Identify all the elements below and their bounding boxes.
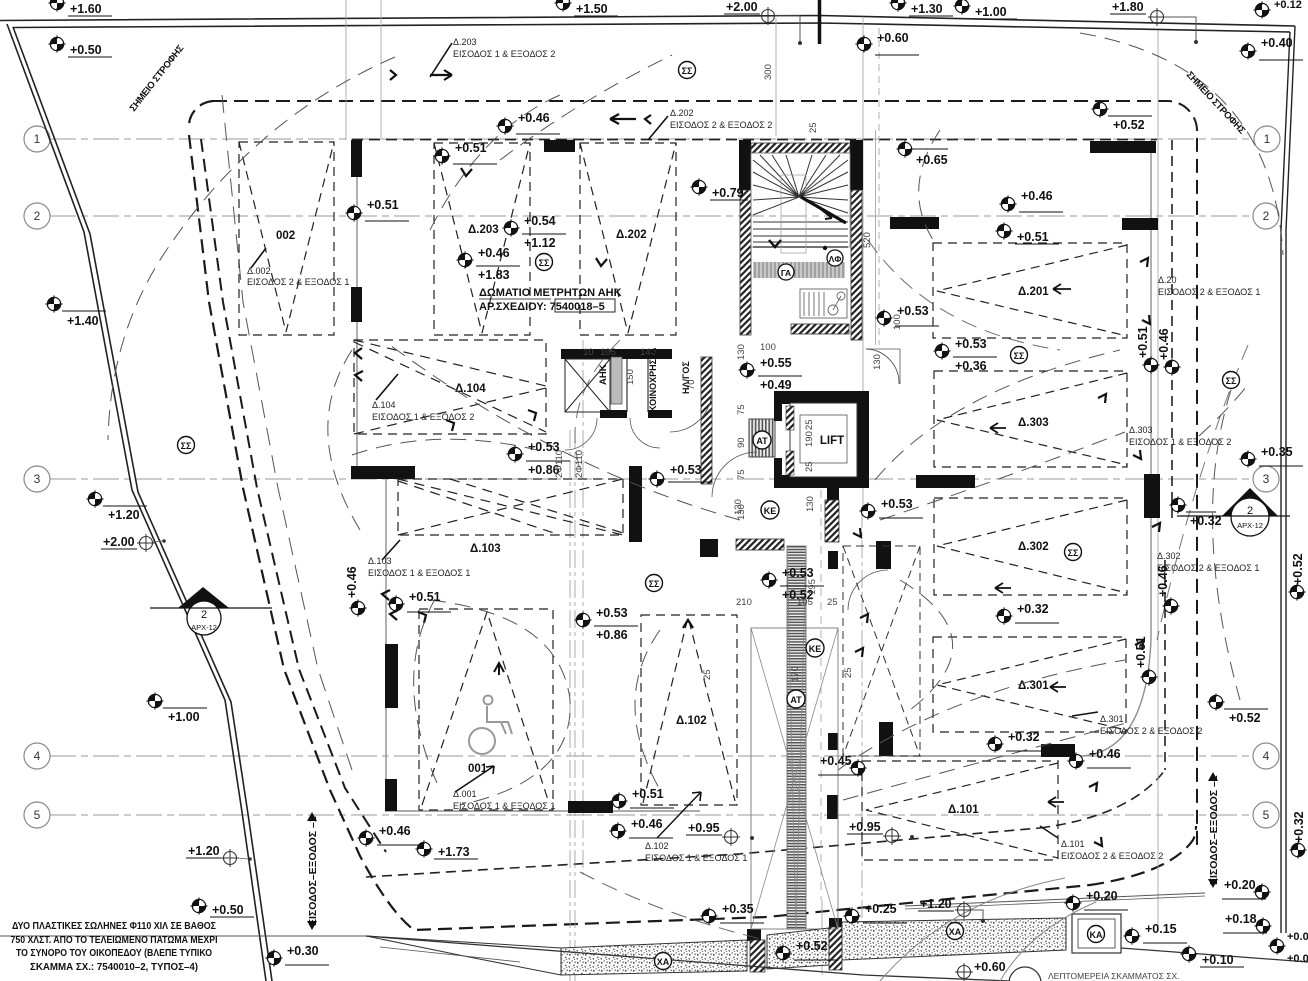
svg-text:+0.45: +0.45 (820, 754, 852, 768)
driveway edge dashed diagonal 1 (189, 135, 1090, 930)
svg-text:ΕΙΣΟΔΟΣ 2 & ΕΞΟΔΟΣ 1: ΕΙΣΟΔΟΣ 2 & ΕΞΟΔΟΣ 1 (247, 277, 349, 287)
symbol ΣΣ (1223, 372, 1240, 389)
symbol ΛΦ (827, 250, 843, 266)
wall row3 bar (916, 475, 975, 488)
bottom partial detail circle (1009, 967, 1041, 981)
svg-text:+0.51: +0.51 (455, 141, 487, 155)
svg-text:+1.60: +1.60 (70, 2, 102, 16)
svg-text:750 ΧΛΣΤ. ΑΠΟ ΤΟ ΤΕΛΕΙΩΜΕΝΟ ΠΑ: 750 ΧΛΣΤ. ΑΠΟ ΤΟ ΤΕΛΕΙΩΜΕΝΟ ΠΑΤΩΜΑ ΜΕΧΡΙ (11, 935, 218, 946)
svg-text:+0.53: +0.53 (955, 337, 987, 351)
svg-text:520: 520 (862, 232, 873, 248)
survey marker +0.46 (1156, 565, 1180, 614)
survey marker +0.12 (1253, 0, 1301, 19)
survey marker +1.73 (415, 840, 478, 859)
svg-text:+1.20: +1.20 (188, 844, 220, 858)
svg-text:+0.46: +0.46 (631, 817, 663, 831)
svg-text:+0.46: +0.46 (1157, 328, 1171, 360)
svg-text:300: 300 (763, 64, 774, 80)
door arcs core (565, 349, 1015, 610)
symbol ΚΑ (1088, 926, 1105, 943)
survey marker +0.51 (610, 787, 674, 810)
svg-text:3: 3 (34, 472, 41, 486)
wall bottom ramp right (829, 918, 842, 928)
svg-text:+0.32: +0.32 (1292, 811, 1306, 843)
svg-text:+0.46: +0.46 (518, 111, 550, 125)
svg-text:+0.25: +0.25 (865, 902, 897, 916)
survey marker +0.10 (1180, 945, 1244, 967)
svg-text:150: 150 (625, 369, 636, 385)
survey marker +0.51 (387, 590, 451, 613)
parking stall Δ.103 (398, 479, 623, 535)
survey marker +0.45 (818, 754, 867, 777)
parking stall Δ.301 (933, 637, 1126, 732)
svg-text:+1.12: +1.12 (524, 236, 556, 250)
svg-text:+0.15: +0.15 (1145, 922, 1177, 936)
survey marker +1.80 (1110, 0, 1198, 44)
parking stall B (top middle) (434, 143, 530, 335)
stair lobby grey band (753, 262, 845, 278)
parking stall Δ.201 (933, 243, 1127, 338)
survey marker +0.65 (896, 140, 948, 167)
svg-text:ΑΗΚ: ΑΗΚ (598, 364, 609, 385)
wall stair right (850, 140, 863, 190)
symbol ΑΤ (787, 690, 805, 708)
svg-text:Δ.102: Δ.102 (645, 841, 669, 851)
svg-text:+0.49: +0.49 (760, 378, 792, 392)
symbol ΣΣ (536, 254, 553, 271)
wall B13 (828, 551, 838, 569)
survey marker +0.51 (995, 222, 1059, 244)
svg-text:ΓΑ: ΓΑ (781, 268, 791, 278)
svg-text:+0.46: +0.46 (1156, 565, 1170, 597)
svg-text:130: 130 (872, 354, 883, 370)
svg-text:Δ.103: Δ.103 (470, 543, 501, 555)
survey marker +0.53 (760, 566, 824, 602)
svg-text:+0.51: +0.51 (1136, 326, 1150, 358)
svg-text:+0.79: +0.79 (712, 186, 744, 200)
svg-text:2Φ110: 2Φ110 (554, 450, 565, 478)
svg-text:+0.32: +0.32 (1017, 602, 1049, 616)
survey marker +0.32 (986, 730, 1050, 753)
stair treads winder fan (751, 153, 850, 253)
svg-text:2: 2 (1247, 505, 1253, 517)
stair bottom wall hatched (791, 324, 849, 334)
AHK store room (565, 359, 610, 412)
svg-text:+0.46: +0.46 (1021, 189, 1053, 203)
svg-text:Δ.20: Δ.20 (1158, 275, 1177, 285)
svg-text:+0.51: +0.51 (1017, 230, 1049, 244)
svg-text:25: 25 (827, 597, 838, 608)
survey marker +0.52 (1207, 693, 1268, 725)
svg-text:+0.54: +0.54 (524, 214, 556, 228)
svg-text:ΔΩΜΑΤΙΟ ΜΕΤΡΗΤΩΝ ΑΗΚ: ΔΩΜΑΤΙΟ ΜΕΤΡΗΤΩΝ ΑΗΚ (479, 287, 622, 299)
svg-text:Δ.101: Δ.101 (1061, 839, 1085, 849)
svg-text:5: 5 (1263, 808, 1270, 822)
svg-text:+0.30: +0.30 (287, 944, 319, 958)
survey marker +0.32 (995, 602, 1059, 625)
svg-text:ΣΣ: ΣΣ (1226, 376, 1237, 386)
survey marker +0.35 (1239, 445, 1303, 468)
svg-text:ΑΡ.ΣΧΕΔΙΟΥ: 7540018–5: ΑΡ.ΣΧΕΔΙΟΥ: 7540018–5 (479, 301, 605, 313)
svg-text:+0.46: +0.46 (345, 566, 359, 598)
survey marker +0.79 (690, 178, 748, 200)
svg-text:+0.32: +0.32 (1008, 730, 1040, 744)
core inner partition (627, 359, 648, 412)
svg-text:+1.73: +1.73 (438, 845, 470, 859)
site boundary right edge (1281, 26, 1295, 933)
bikes icon (800, 289, 847, 318)
triangle APX-12 left (150, 587, 272, 635)
wheelchair icon (469, 696, 512, 755)
svg-text:ΕΙΣΟΔΟΣ 1 & ΕΞΟΔΟΣ 1: ΕΙΣΟΔΟΣ 1 & ΕΞΟΔΟΣ 1 (368, 568, 470, 578)
leader 002 (251, 248, 266, 268)
excavation boundary bottom right curve (1090, 826, 1196, 885)
wall B3 top bar (544, 140, 575, 152)
survey marker +0.54 (502, 214, 566, 250)
svg-text:+0.20: +0.20 (1224, 878, 1256, 892)
survey marker +1.50 (554, 0, 618, 16)
svg-text:+0.51: +0.51 (632, 787, 664, 801)
wall B8 row2 right bar (1122, 218, 1158, 230)
symbol ΣΣ (178, 437, 195, 454)
svg-text:ΣΣ: ΣΣ (1014, 351, 1025, 361)
entrance label vertical right (1208, 775, 1220, 885)
stair right wall hatched (851, 190, 862, 340)
survey marker +0.53 (933, 337, 997, 373)
symbol ΓΑ (778, 264, 794, 280)
svg-text:ΕΙΣΟΔΟΣ 2 & ΕΞΟΔΟΣ 1: ΕΙΣΟΔΟΣ 2 & ΕΞΟΔΟΣ 1 (1157, 563, 1259, 573)
symbol ΣΣ (1011, 347, 1028, 364)
svg-text:ΧΑ: ΧΑ (657, 957, 670, 967)
svg-text:75: 75 (736, 404, 747, 415)
parking stall Δ.302 (934, 498, 1127, 595)
core bottom wall hatched (736, 539, 784, 550)
svg-text:Δ.104: Δ.104 (372, 400, 396, 410)
svg-text:+2.00: +2.00 (726, 0, 758, 14)
survey marker +0.50 (48, 35, 112, 57)
svg-text:001: 001 (468, 763, 488, 775)
wall B10 vertical (629, 466, 642, 542)
svg-text:Δ.102: Δ.102 (676, 715, 707, 727)
svg-text:ΑΤ: ΑΤ (756, 436, 768, 446)
AT duct hatched block (749, 419, 775, 457)
svg-text:+1.20: +1.20 (108, 508, 140, 522)
svg-text:ΤΟ ΣΥΝΟΡΟ ΤΟΥ ΟΙΚΟΠΕΔΟΥ (ΒΛΕΠΕ: ΤΟ ΣΥΝΟΡΟ ΤΟΥ ΟΙΚΟΠΕΔΟΥ (ΒΛΕΠΕ ΤΥΠΙΚΟ (16, 948, 212, 959)
survey marker +0.51 (1136, 326, 1160, 373)
svg-text:+0.53: +0.53 (881, 497, 913, 511)
survey marker +0.30 (265, 944, 329, 967)
survey marker +0.25 (843, 902, 907, 925)
symbol ΧΑ (947, 923, 964, 940)
svg-text:130: 130 (733, 499, 744, 515)
svg-text:100: 100 (892, 314, 903, 330)
svg-text:+1.30: +1.30 (911, 2, 943, 16)
handrail thick (801, 197, 846, 223)
svg-text:+1.00: +1.00 (975, 5, 1007, 19)
svg-text:+0.00: +0.00 (1287, 931, 1308, 943)
svg-text:+0.53: +0.53 (670, 463, 702, 477)
svg-text:195: 195 (807, 579, 818, 595)
svg-text:+0.46: +0.46 (379, 824, 411, 838)
driveway edge dashed diagonal 2 (201, 139, 386, 852)
survey marker +2.00 (724, 0, 802, 45)
chevron arrows small (390, 70, 651, 266)
survey marker +0.60 (855, 31, 919, 55)
wall B15 (879, 722, 893, 756)
survey marker +0.46 (1067, 747, 1131, 770)
survey marker +0.32 (1169, 496, 1221, 528)
symbol ΣΣ (679, 62, 696, 79)
survey marker +0.52 (1091, 100, 1152, 132)
svg-text:Δ.302: Δ.302 (1018, 541, 1049, 553)
svg-text:LIFT: LIFT (820, 435, 844, 447)
svg-text:ΣΣ: ΣΣ (649, 579, 660, 589)
survey marker +0.52 (774, 939, 838, 962)
symbol ΣΣ (646, 575, 663, 592)
survey marker +0.32 (1289, 811, 1306, 858)
svg-text:ΕΙΣΟΔΟΣ 1 & ΕΞΟΔΟΣ 2: ΕΙΣΟΔΟΣ 1 & ΕΞΟΔΟΣ 2 (453, 49, 555, 59)
survey marker +0.50 (190, 897, 254, 917)
svg-text:Δ.101: Δ.101 (948, 804, 979, 816)
survey marker +0.51 (1134, 636, 1158, 685)
wall stair left (739, 140, 751, 190)
wall bottom ramp left (747, 929, 761, 941)
svg-text:1: 1 (34, 132, 41, 146)
wall B6 top right bar (1090, 141, 1156, 153)
svg-text:+0.53: +0.53 (596, 606, 628, 620)
svg-text:Δ.303: Δ.303 (1018, 417, 1049, 429)
svg-text:ΚΕ: ΚΕ (809, 644, 822, 654)
svg-text:+0.35: +0.35 (722, 902, 754, 916)
svg-text:3: 3 (1263, 472, 1270, 486)
svg-text:+1.40: +1.40 (67, 314, 99, 328)
parking stall 002 (239, 142, 334, 335)
survey marker +0.46 (456, 246, 520, 282)
svg-text:+1.80: +1.80 (1112, 0, 1144, 14)
svg-text:ΣΣ: ΣΣ (539, 258, 550, 268)
svg-text:ΣΣ: ΣΣ (682, 66, 693, 76)
parking stall Δ.102 (641, 615, 737, 805)
hatched walls (561, 143, 862, 972)
symbol ΧΑ (655, 953, 672, 970)
survey marker +0.20 (1222, 878, 1271, 901)
svg-text:ΛΦ: ΛΦ (829, 254, 842, 264)
svg-text:+0.36: +0.36 (955, 359, 987, 373)
svg-text:+1.20: +1.20 (920, 897, 952, 911)
svg-text:+0.51: +0.51 (409, 590, 441, 604)
survey marker +1.20 (186, 844, 252, 867)
survey marker +0.53 (875, 304, 939, 327)
stair top wall hatched (751, 143, 850, 153)
svg-text:+0.46: +0.46 (478, 246, 510, 260)
svg-text:+0.32: +0.32 (1190, 514, 1222, 528)
dimension texts (554, 64, 1031, 682)
svg-text:ΕΙΣΟΔΟΣ 2 & ΕΞΟΔΟΣ 2: ΕΙΣΟΔΟΣ 2 & ΕΞΟΔΟΣ 2 (1100, 726, 1202, 736)
svg-text:130: 130 (736, 344, 747, 360)
site boundary left edge (7, 24, 272, 981)
svg-text:Δ.002: Δ.002 (247, 266, 271, 276)
wall B2 (351, 287, 362, 322)
svg-text:25: 25 (702, 669, 713, 680)
svg-text:2: 2 (1263, 209, 1270, 223)
circled symbols (648, 463, 712, 488)
wall B19 left lower stub (385, 644, 398, 708)
svg-text:+2.00: +2.00 (103, 535, 135, 549)
svg-text:ΕΙΣΟΔΟΣ 2 & ΕΞΟΔΟΣ 1: ΕΙΣΟΔΟΣ 2 & ΕΞΟΔΟΣ 1 (1158, 287, 1260, 297)
svg-text:ΕΙΣΟΔΟΣ 1 & ΕΞΟΔΟΣ 1: ΕΙΣΟΔΟΣ 1 & ΕΞΟΔΟΣ 1 (453, 801, 555, 811)
survey marker +0.46 (1157, 328, 1181, 375)
arrow up in 001 (494, 663, 504, 675)
svg-text:ΕΙΣΟΔΟΣ 2 & ΕΞΟΔΟΣ 2: ΕΙΣΟΔΟΣ 2 & ΕΞΟΔΟΣ 2 (670, 120, 772, 130)
svg-text:ΕΙΣΟΔΟΣ 1 & ΕΞΟΔΟΣ 2: ΕΙΣΟΔΟΣ 1 & ΕΞΟΔΟΣ 2 (372, 412, 474, 422)
site boundary top edge (0, 16, 1295, 33)
sidewalk column hatched right (829, 927, 842, 970)
svg-text:ΑΤ: ΑΤ (790, 695, 802, 705)
svg-text:2: 2 (201, 609, 207, 621)
svg-text:+0.12: +0.12 (1274, 0, 1302, 11)
parking stall Δ.104 (354, 340, 546, 434)
svg-text:+1.83: +1.83 (478, 268, 510, 282)
driveway centerline dashed (222, 95, 352, 770)
svg-text:25: 25 (808, 122, 819, 133)
svg-text:75: 75 (736, 469, 747, 480)
svg-text:+0.35: +0.35 (1261, 445, 1293, 459)
wall ramp top stub (827, 480, 839, 500)
symbol ΚΕ (761, 501, 779, 519)
stair arrow (769, 240, 781, 247)
symbol ΚΕ (806, 639, 824, 657)
wall B17 bottom bar (568, 801, 613, 813)
parking stall Δ.303 (934, 371, 1127, 467)
wall row3 right vertical (1144, 474, 1160, 518)
svg-text:APX-12: APX-12 (191, 623, 217, 632)
svg-text:Δ.203: Δ.203 (453, 37, 477, 47)
survey marker +0.51 (433, 141, 497, 165)
survey marker +0.18 (1223, 912, 1272, 935)
wall B20 (385, 779, 397, 811)
svg-text:4: 4 (1263, 749, 1270, 763)
svg-text:+0.95: +0.95 (849, 820, 881, 834)
survey marker +0.55 (738, 356, 802, 392)
svg-text:ΧΑ: ΧΑ (949, 927, 962, 937)
svg-text:+0.52: +0.52 (796, 939, 828, 953)
svg-text:ΣΣ: ΣΣ (181, 441, 192, 451)
svg-text:90: 90 (736, 437, 747, 448)
svg-text:ΕΙΣΟΔΟΣ 1 & ΕΞΟΔΟΣ 2: ΕΙΣΟΔΟΣ 1 & ΕΞΟΔΟΣ 2 (1129, 437, 1231, 447)
svg-text:Δ.001: Δ.001 (453, 789, 477, 799)
leader Δ.203 top (430, 43, 452, 77)
svg-text:+1.00: +1.00 (168, 710, 200, 724)
grid bubble 1 left (24, 126, 1280, 828)
survey marker +1.00 (146, 692, 207, 724)
svg-text:ΗΛ/ΓΟΣ: ΗΛ/ΓΟΣ (681, 361, 691, 394)
svg-text:Δ.201: Δ.201 (1018, 286, 1049, 298)
survey marker +0.46 (357, 824, 421, 847)
stall right of ramp with X (843, 546, 920, 756)
svg-text:170: 170 (790, 666, 801, 682)
survey marker +0.35 (700, 902, 764, 925)
survey marker +2.00 (101, 534, 166, 552)
wall B16 row4 bar (1041, 744, 1075, 757)
svg-text:105: 105 (600, 347, 616, 358)
svg-text:Δ.303: Δ.303 (1129, 425, 1153, 435)
ramp side hatched (825, 500, 839, 542)
svg-text:+0.51: +0.51 (367, 198, 399, 212)
svg-text:ΚΑ: ΚΑ (1090, 930, 1103, 940)
thick tick at top center (818, 0, 822, 44)
survey marker +0.95 (686, 821, 754, 846)
survey marker +0.00 (1268, 931, 1308, 965)
svg-text:ΕΙΣΟΔΟΣ–ΕΞΟΔΟΣ –2: ΕΙΣΟΔΟΣ–ΕΞΟΔΟΣ –2 (1208, 775, 1220, 885)
survey marker +1.40 (45, 295, 106, 328)
survey marker +0.20 (1064, 889, 1128, 912)
svg-text:2: 2 (34, 209, 41, 223)
wall ramp right stub 3 (827, 795, 838, 819)
svg-text:Δ.202: Δ.202 (616, 229, 647, 241)
survey marker +0.51 (345, 198, 409, 222)
svg-text:+0.53: +0.53 (782, 566, 814, 580)
stair left wall hatched (740, 190, 751, 335)
svg-text:ΣΣ: ΣΣ (1068, 548, 1079, 558)
svg-text:Δ.301: Δ.301 (1018, 680, 1049, 692)
axis dash-dot verticals (570, 340, 862, 981)
survey marker +1.30 (889, 0, 953, 16)
svg-text:002: 002 (276, 230, 295, 242)
survey marker +0.53 (859, 497, 923, 520)
survey marker +1.20 (918, 897, 985, 923)
svg-text:+0.51: +0.51 (1134, 636, 1148, 668)
wall B12 (876, 541, 891, 569)
symbol ΑΤ (753, 431, 771, 449)
svg-text:+0.95: +0.95 (688, 821, 720, 835)
svg-text:+0.50: +0.50 (70, 43, 102, 57)
triangle APX-12 right (1177, 488, 1290, 536)
svg-text:ΛΕΠΤΟΜΕΡΕΙΑ ΣΚΑΜΜΑΤΟΣ ΣΧ.: ΛΕΠΤΟΜΕΡΕΙΑ ΣΚΑΜΜΑΤΟΣ ΣΧ. (1048, 971, 1180, 981)
survey marker +0.53 (506, 440, 570, 477)
survey marker +0.46 (345, 566, 359, 598)
vertical reference lines (346, 0, 1158, 975)
AHK top wall (561, 349, 672, 359)
survey marker level (349, 599, 366, 616)
AHK lower wall (600, 410, 627, 418)
svg-text:+0.65: +0.65 (916, 153, 948, 167)
svg-text:+0.40: +0.40 (1261, 36, 1293, 50)
svg-text:25: 25 (804, 461, 815, 472)
svg-text:+0.52: +0.52 (1291, 553, 1305, 585)
survey marker +1.00 (953, 0, 1017, 19)
svg-text:+0.50: +0.50 (212, 903, 244, 917)
lift shaft walls (774, 391, 869, 488)
grid axis row 1 (50, 139, 1253, 815)
survey marker +1.20 (86, 490, 147, 522)
svg-text:25: 25 (804, 419, 815, 430)
svg-text:1: 1 (1264, 132, 1271, 146)
svg-text:ΕΙΣΟΔΟΣ 1 & ΕΞΟΔΟΣ 1: ΕΙΣΟΔΟΣ 1 & ΕΞΟΔΟΣ 1 (645, 853, 747, 863)
svg-text:+0.55: +0.55 (760, 356, 792, 370)
symbol ΣΣ (1065, 544, 1082, 561)
building top edge dashed (352, 139, 1157, 141)
survey marker +1.60 (48, 0, 112, 16)
lift cab (790, 403, 857, 477)
wall B1 left top stub (351, 140, 1160, 941)
svg-text:+0.10: +0.10 (1202, 953, 1234, 967)
svg-text:25: 25 (843, 667, 854, 678)
AHK door grey (611, 357, 622, 404)
survey marker +0.46 (999, 189, 1063, 213)
svg-text:+0.20: +0.20 (1086, 889, 1118, 903)
leader Δ.202 (648, 116, 668, 140)
survey marker +0.40 (1239, 36, 1303, 60)
